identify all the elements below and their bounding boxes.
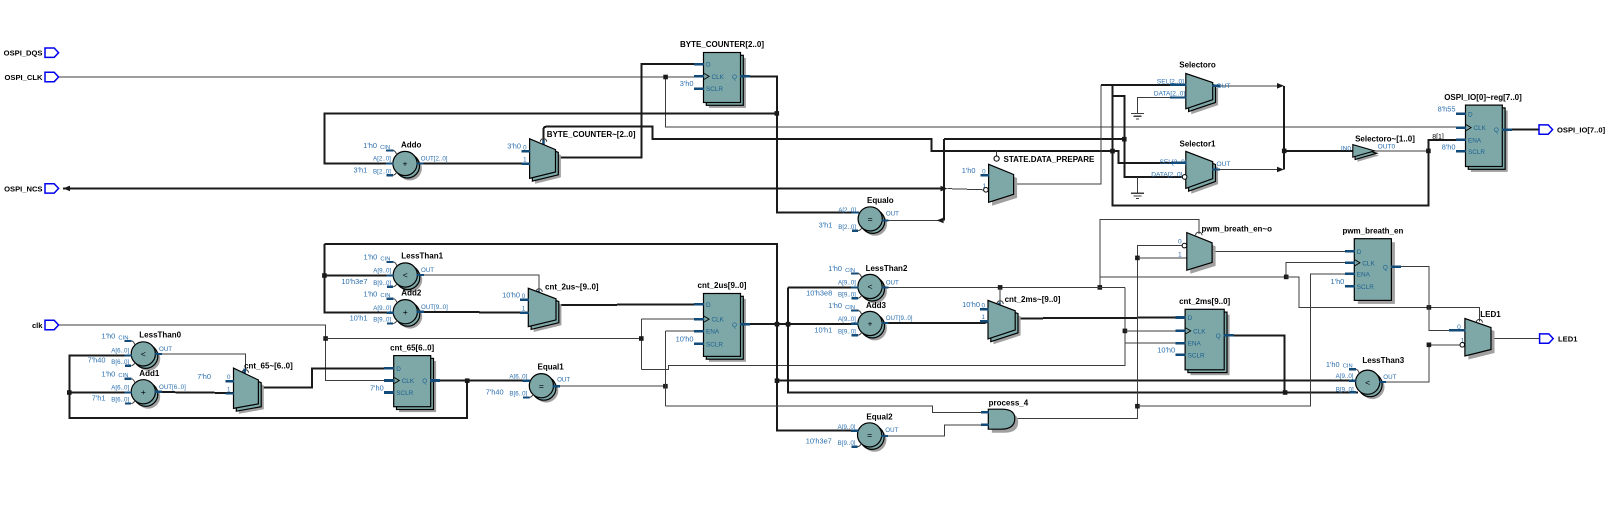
svg-text:B[9..0]: B[9..0] — [838, 291, 856, 298]
svg-text:B[9..0]: B[9..0] — [838, 440, 856, 447]
wire Add3 OUT to mux — [882, 322, 988, 324]
LessThan0 B — [125, 365, 131, 367]
ground under Selector1 — [1137, 177, 1139, 193]
junction cnt_65 Q — [465, 378, 470, 383]
svg-text:Q: Q — [422, 378, 427, 385]
svg-text:OSPI_NCS: OSPI_NCS — [4, 184, 42, 193]
mux BYTE_COUNTER~[2..0] — [535, 144, 561, 184]
svg-text:1: 1 — [1178, 252, 1182, 259]
svg-text:0: 0 — [1178, 238, 1182, 245]
bubble LED1 mux 1 — [1460, 343, 1465, 348]
register cnt_65[6..0] — [399, 361, 436, 412]
svg-text:cnt_65~[6..0]: cnt_65~[6..0] — [244, 361, 293, 370]
Add2 CIN — [387, 298, 394, 300]
comparator LessThan1 — [398, 268, 422, 292]
svg-text:OUT[6..0]: OUT[6..0] — [159, 384, 186, 391]
junction LED 1 input corner — [1427, 343, 1432, 348]
svg-text:A[9..0]: A[9..0] — [838, 280, 856, 287]
svg-text:OUT[9..0]: OUT[9..0] — [886, 315, 913, 322]
junction clk riser — [1098, 285, 1103, 290]
svg-text:cnt_2ms~[9..0]: cnt_2ms~[9..0] — [1005, 295, 1061, 304]
LessThan1 B — [387, 286, 393, 288]
wire OSPI_NCS bus — [63, 187, 941, 189]
ground under Selectoro — [1137, 113, 1139, 115]
wire LessThan0 OUT select — [156, 354, 246, 372]
junction SEL1 tap — [1110, 149, 1115, 154]
svg-text:7'h1: 7'h1 — [92, 394, 106, 403]
select hop arc — [1196, 232, 1202, 235]
wire LessThan3 OUT to LED 1 — [1380, 345, 1460, 382]
svg-text:CLK: CLK — [402, 378, 415, 385]
Add3 B — [852, 334, 858, 336]
wire cnt_65 feedback box — [69, 356, 467, 418]
svg-text:BYTE_COUNTER~[2..0]: BYTE_COUNTER~[2..0] — [547, 130, 636, 139]
svg-text:OSPI_IO[0]~reg[7..0]: OSPI_IO[0]~reg[7..0] — [1444, 93, 1522, 102]
svg-text:A[2..0]: A[2..0] — [373, 156, 391, 163]
junction ENA net — [1426, 149, 1431, 154]
buffer Selectoro~[1..0] — [1357, 149, 1379, 162]
wire Equal1 OUT — [554, 385, 666, 387]
svg-text:+: + — [403, 307, 408, 317]
svg-text:pwm_breath_en: pwm_breath_en — [1342, 226, 1403, 235]
svg-text:CIN: CIN — [118, 373, 128, 379]
bubble STATE select — [994, 156, 999, 161]
wire cnt_65~ out to D — [258, 368, 394, 387]
svg-text:A[6..0]: A[6..0] — [111, 348, 129, 355]
svg-text:A[9..0]: A[9..0] — [373, 305, 391, 312]
wire cnt_2us~ out to D — [556, 303, 704, 306]
wire selector merge vertical — [1283, 86, 1285, 170]
svg-text:8[1]: 8[1] — [1432, 134, 1444, 141]
svg-text:OUT: OUT — [421, 267, 434, 274]
select hop arc — [540, 139, 546, 142]
comparator LessThan2 — [863, 279, 887, 303]
wire LessThan3 A line — [777, 380, 1357, 382]
svg-text:DATA[2..0]: DATA[2..0] — [1151, 172, 1182, 179]
arrow OSPI_NCS pin — [63, 186, 70, 192]
svg-text:cnt_2us~[9..0]: cnt_2us~[9..0] — [545, 283, 599, 292]
svg-text:10'h0: 10'h0 — [502, 291, 520, 300]
wire DATA0 from ground — [1138, 98, 1178, 114]
svg-text:OUT: OUT — [885, 427, 898, 434]
svg-text:Equalo: Equalo — [867, 196, 894, 205]
comparator Equalo — [863, 212, 887, 236]
svg-text:CIN: CIN — [118, 335, 128, 341]
svg-text:D: D — [706, 62, 711, 69]
junction cnt_2us Q a — [775, 322, 780, 327]
svg-text:B[6..0]: B[6..0] — [111, 397, 129, 404]
svg-text:ENA: ENA — [1188, 341, 1202, 348]
wire process_4 to pwm 1 — [1137, 257, 1187, 259]
wire BYTE_COUNTER~ mux out to D — [556, 64, 705, 157]
wire Add1 OUT to mux — [156, 392, 234, 393]
Equal1 B — [523, 396, 529, 398]
svg-text:A[9..0]: A[9..0] — [838, 316, 856, 323]
select stub — [243, 369, 246, 374]
wire clk net lower — [59, 325, 394, 381]
svg-text:IN0: IN0 — [1341, 146, 1352, 153]
output pin OSPI_NCS — [45, 184, 59, 193]
svg-text:10'h0: 10'h0 — [962, 300, 980, 309]
svg-text:7'h40: 7'h40 — [88, 356, 106, 365]
select stub — [998, 303, 1001, 308]
svg-text:D: D — [1468, 112, 1473, 119]
svg-text:10'h3e7: 10'h3e7 — [341, 277, 367, 286]
svg-text:Selector1: Selector1 — [1179, 139, 1216, 148]
svg-text:1'h0: 1'h0 — [1326, 360, 1340, 369]
svg-text:process_4: process_4 — [989, 398, 1029, 407]
select hop arc — [242, 370, 248, 373]
wire branch to LessThan2 A — [788, 287, 1358, 392]
svg-text:Add2: Add2 — [401, 289, 422, 298]
junction pwm clk — [1284, 275, 1289, 280]
svg-text:B[6..0]: B[6..0] — [111, 359, 129, 366]
svg-text:1'h0: 1'h0 — [828, 301, 842, 310]
svg-text:cnt_2us[9..0]: cnt_2us[9..0] — [698, 281, 747, 290]
svg-text:SCLR: SCLR — [1468, 149, 1485, 156]
svg-text:1'h0: 1'h0 — [1331, 277, 1345, 286]
adder Addo — [398, 156, 422, 180]
svg-text:Q: Q — [1383, 264, 1388, 271]
adder Add3 — [863, 316, 887, 340]
svg-text:=: = — [867, 430, 872, 440]
junction LED select pwmQ — [1427, 305, 1432, 310]
svg-text:OUT: OUT — [886, 211, 899, 218]
wire merge to buffer — [1284, 150, 1353, 152]
wire clk trunk — [641, 287, 1125, 369]
svg-text:B[9..0]: B[9..0] — [373, 317, 391, 324]
wire Equal1 to cnt_2us ENA — [665, 330, 704, 332]
junction clk mid — [639, 336, 644, 341]
Add2 B — [387, 322, 393, 324]
svg-text:CLK: CLK — [1474, 125, 1487, 132]
svg-text:OUT[2..0]: OUT[2..0] — [421, 156, 448, 163]
junction Q feedback — [775, 111, 780, 116]
svg-text:LessThan3: LessThan3 — [1362, 356, 1404, 365]
LessThan0 CIN — [125, 340, 132, 342]
svg-text:A[6..0]: A[6..0] — [509, 374, 527, 381]
Add3 CIN — [851, 309, 858, 311]
svg-text:3'h1: 3'h1 — [819, 221, 833, 230]
register BYTE_COUNTER[2..0] — [709, 58, 746, 108]
svg-text:pwm_breath_en~o: pwm_breath_en~o — [1202, 225, 1273, 234]
mux pwm_breath_en~o — [1190, 236, 1215, 274]
Add1 B — [125, 403, 131, 405]
register pwm_breath_en — [1358, 242, 1395, 304]
input pin OSPI_DQS — [45, 48, 59, 57]
svg-text:D: D — [706, 302, 711, 309]
wire LessThan2 OUT — [882, 286, 1125, 288]
svg-text:CIN: CIN — [1343, 364, 1353, 370]
select hop arc — [536, 289, 542, 292]
svg-text:D: D — [396, 366, 401, 373]
svg-text:OUT: OUT — [159, 346, 172, 353]
mux cnt_65~[6..0] — [239, 374, 264, 414]
wire STATE select stub — [996, 151, 998, 156]
wire feedback to Addo — [324, 113, 776, 163]
LessThan2 B — [852, 297, 858, 299]
comparator Equal2 — [862, 428, 886, 452]
svg-text:B[6..0]: B[6..0] — [509, 391, 527, 398]
arrow Selector1 OUT — [1277, 167, 1284, 173]
svg-text:SCLR: SCLR — [1188, 353, 1205, 360]
junction process_4 b — [1135, 256, 1140, 261]
svg-text:Q: Q — [1216, 333, 1221, 340]
svg-text:Selectoro: Selectoro — [1179, 60, 1216, 69]
junction merge — [1282, 149, 1287, 154]
select stub — [537, 291, 540, 296]
svg-text:OUT[9..0]: OUT[9..0] — [421, 304, 448, 311]
svg-text:<: < — [141, 349, 146, 359]
wire OSPI_CLK to BYTE_COUNTER CLK — [666, 76, 695, 78]
LessThan2 CIN — [851, 272, 858, 274]
comparator Equal1 — [534, 378, 558, 402]
svg-text:10'h3e8: 10'h3e8 — [806, 288, 832, 297]
svg-text:Q: Q — [1494, 127, 1499, 134]
svg-text:8'h55: 8'h55 — [1438, 105, 1456, 114]
svg-text:SCLR: SCLR — [706, 86, 723, 93]
svg-text:CIN: CIN — [845, 305, 855, 311]
svg-text:10'h0: 10'h0 — [1157, 346, 1175, 355]
svg-text:7'h0: 7'h0 — [197, 372, 211, 381]
svg-text:CIN: CIN — [845, 268, 855, 274]
wire pwm mux out to D — [1212, 250, 1354, 252]
wire clk vertical mid — [640, 319, 642, 370]
bubble STATE input 1 — [984, 188, 989, 193]
svg-text:3'h0: 3'h0 — [507, 142, 521, 151]
wire clk to cnt_2ms CLK — [1125, 330, 1186, 332]
junction process_4 a — [1135, 404, 1140, 409]
mux cnt_2ms~[9..0] — [993, 306, 1020, 345]
wire Add2 OUT to mux — [418, 312, 529, 313]
svg-text:1'h0: 1'h0 — [828, 264, 842, 273]
wire cnt_2us Q to Add3 — [741, 323, 859, 325]
svg-text:OUT0: OUT0 — [1378, 144, 1396, 151]
junction Equal1 ena — [663, 384, 668, 389]
wire LessThan2 A — [788, 286, 852, 288]
svg-text:OUT: OUT — [886, 280, 899, 287]
svg-text:Add3: Add3 — [866, 301, 887, 310]
junction Add1 A — [67, 390, 72, 395]
svg-text:1'h0: 1'h0 — [962, 166, 976, 175]
svg-text:clk: clk — [32, 321, 43, 330]
svg-text:Equal1: Equal1 — [538, 362, 565, 371]
svg-text:cnt_65[6..0]: cnt_65[6..0] — [390, 343, 434, 352]
Equalo B — [852, 230, 858, 232]
register cnt_2us[9..0] — [709, 299, 746, 362]
svg-text:1'h0: 1'h0 — [364, 289, 378, 298]
svg-text:OUT: OUT — [1217, 161, 1231, 168]
svg-text:LessThan2: LessThan2 — [866, 264, 908, 273]
wire Equal2 OUT to process_4 — [882, 425, 989, 436]
svg-text:LessThan1: LessThan1 — [401, 252, 443, 261]
wire BYTE_COUNTER feedback Q to Addo A — [741, 76, 859, 212]
svg-text:10'h1: 10'h1 — [814, 325, 832, 334]
wire OSPI_IO Q to pin — [1502, 129, 1539, 131]
select stub — [542, 140, 545, 145]
junction A LessThan1 — [322, 273, 327, 278]
wire cnt_2us box left — [323, 244, 325, 275]
svg-text:1'h0: 1'h0 — [102, 332, 116, 341]
comparator LessThan0 — [136, 347, 160, 371]
svg-text:Q: Q — [732, 74, 737, 81]
adder Add2 — [398, 304, 422, 328]
wire SEL0 line — [1101, 84, 1177, 86]
wire process_4 to pwm ENA — [1137, 274, 1354, 406]
wire SEL0 feed line — [944, 138, 1125, 140]
select hop arc — [1476, 319, 1482, 322]
junction clk at BYTE_COUNTER — [663, 75, 668, 80]
svg-text:D: D — [1188, 315, 1193, 322]
svg-text:CIN: CIN — [380, 145, 390, 151]
svg-text:OUT: OUT — [1383, 374, 1396, 381]
wire pwm Q to LED 0 — [1391, 267, 1465, 331]
svg-text:SCLR: SCLR — [1357, 284, 1374, 291]
input pin OSPI_CLK — [45, 72, 59, 81]
svg-text:A[9..0]: A[9..0] — [1336, 373, 1354, 380]
LessThan3 CIN — [1349, 368, 1356, 370]
wire tangle vertical c — [1113, 96, 1183, 177]
svg-text:7'h0: 7'h0 — [370, 383, 384, 392]
svg-text:10'h3e7: 10'h3e7 — [806, 437, 832, 446]
svg-text:OSPI_DQS: OSPI_DQS — [4, 49, 43, 58]
svg-text:Selectoro~[1..0]: Selectoro~[1..0] — [1355, 134, 1415, 143]
svg-text:B[9..0]: B[9..0] — [838, 328, 856, 335]
svg-text:1'h0: 1'h0 — [364, 253, 378, 262]
input pin clk — [45, 320, 59, 329]
wire cnt_2ms~ out to D — [1015, 317, 1185, 320]
arrow Equalo OUT join — [937, 218, 944, 224]
adder Add1 — [136, 385, 160, 409]
wire clk branch right — [326, 338, 642, 340]
wire Selector1 OUT — [1213, 169, 1277, 171]
wire process_4 out — [1015, 246, 1183, 419]
wire clk riser right — [1100, 219, 1199, 287]
comparator LessThan3 — [1360, 375, 1384, 399]
svg-text:SCLR: SCLR — [396, 390, 413, 397]
junction clk lower — [323, 336, 328, 341]
svg-text:OUT: OUT — [557, 376, 570, 383]
mux cnt_2us~[9..0] — [534, 294, 562, 332]
svg-text:CIN: CIN — [380, 256, 390, 262]
arrow OSPI_NCS join — [941, 186, 948, 192]
svg-text:Equal2: Equal2 — [866, 412, 893, 421]
Addo CIN — [386, 149, 393, 151]
wire Add1 A — [69, 392, 131, 394]
svg-text:CLK: CLK — [1193, 329, 1206, 336]
svg-text:Addo: Addo — [401, 141, 422, 150]
svg-text:OSPI_IO[7..0]: OSPI_IO[7..0] — [1557, 126, 1606, 135]
output pin OSPI_IO[7..0] — [1539, 125, 1553, 134]
svg-text:ENA: ENA — [1468, 138, 1482, 145]
wire DATA1 ground stem — [1137, 177, 1139, 193]
svg-text:CLK: CLK — [1362, 260, 1375, 267]
svg-text:LED1: LED1 — [1558, 335, 1578, 344]
svg-text:LessThan0: LessThan0 — [139, 331, 181, 340]
wire Addo OUT to mux — [418, 163, 530, 165]
register OSPI_IO[0]~reg[7..0] — [1471, 111, 1508, 172]
wire OSPI_NCS to STATE input — [948, 189, 984, 190]
svg-text:1'h0: 1'h0 — [102, 369, 116, 378]
LessThan1 CIN — [387, 261, 394, 263]
wire cnt_2ms ENA feed — [1125, 343, 1186, 365]
svg-text:<: < — [867, 282, 872, 292]
wire clk to LED select — [1286, 277, 1479, 322]
wire clk to cnt_2us CLK — [641, 318, 704, 320]
wire Equal1 vertical — [664, 331, 666, 406]
wire LessThan1 OUT select — [418, 275, 539, 291]
mux STATE.DATA_PREPARE — [992, 168, 1017, 206]
svg-text:+: + — [402, 159, 407, 169]
svg-text:+: + — [867, 319, 872, 329]
wire clk to pwm CLK — [1100, 263, 1355, 277]
svg-text:3'h1: 3'h1 — [353, 165, 367, 174]
output pin LED1 pin — [1540, 334, 1554, 343]
svg-text:LED1: LED1 — [1480, 310, 1501, 319]
junction SEL0 riser — [1122, 137, 1127, 142]
bubble pwm mux 0 — [1182, 243, 1187, 248]
wire Equalo vertical to SEL feed — [943, 139, 945, 220]
svg-text:7'h40: 7'h40 — [486, 388, 504, 397]
select hop arc — [997, 301, 1003, 304]
register cnt_2ms[9..0] — [1191, 315, 1230, 376]
wire tangle vertical b — [1113, 85, 1464, 206]
wire cnt_65 Q to Equal1 — [431, 380, 529, 382]
wire STATE out riser — [1014, 85, 1101, 184]
wire buffer OUT0 to ENA net — [1375, 150, 1429, 152]
svg-text:ENA: ENA — [1357, 271, 1371, 278]
wire Equal1 to process_4 — [665, 406, 988, 412]
svg-text:1'h0: 1'h0 — [363, 141, 377, 150]
wire mux select net — [544, 127, 1177, 163]
svg-text:B[2..0]: B[2..0] — [373, 168, 391, 175]
wire cnt_2us feedback box — [324, 276, 389, 313]
svg-text:CLK: CLK — [712, 317, 725, 324]
svg-text:D: D — [1357, 249, 1362, 256]
svg-text:10'h0: 10'h0 — [676, 335, 694, 344]
wire Selectoro OUT — [1213, 85, 1277, 87]
svg-text:B[2..0]: B[2..0] — [838, 224, 856, 231]
wire cnt_2ms~ select — [999, 287, 1001, 302]
svg-text:=: = — [868, 214, 873, 224]
svg-text:ENA: ENA — [706, 329, 720, 336]
svg-text:CLK: CLK — [712, 74, 725, 81]
selector Selector1 — [1191, 157, 1218, 194]
wire cnt_2ms Q down — [1231, 335, 1284, 392]
selector Selectoro — [1191, 79, 1218, 114]
Add1 CIN — [125, 378, 132, 380]
junction LessThan3 B — [1283, 390, 1288, 395]
gate process_4 — [992, 413, 1018, 433]
wire cnt_2us box top — [324, 244, 858, 431]
svg-text:cnt_2ms[9..0]: cnt_2ms[9..0] — [1179, 297, 1230, 306]
junction cnt_2us Q b — [786, 322, 791, 327]
svg-text:A[6..0]: A[6..0] — [111, 385, 129, 392]
svg-text:OSPI_CLK: OSPI_CLK — [5, 73, 43, 82]
svg-text:+: + — [141, 387, 146, 397]
svg-text:10'h1: 10'h1 — [350, 314, 368, 323]
svg-text:8'h0: 8'h0 — [1442, 143, 1456, 152]
Addo B — [387, 174, 393, 176]
svg-text:A[9..0]: A[9..0] — [373, 268, 391, 275]
Equal2 B — [851, 446, 857, 448]
wire Equalo OUT — [882, 219, 938, 221]
svg-text:<: < — [403, 270, 408, 280]
svg-text:<: < — [1365, 377, 1370, 387]
svg-text:B[9..0]: B[9..0] — [373, 280, 391, 287]
junction cnt_2us Q c — [775, 378, 780, 383]
wire OSPI_CLK net — [59, 77, 1463, 127]
